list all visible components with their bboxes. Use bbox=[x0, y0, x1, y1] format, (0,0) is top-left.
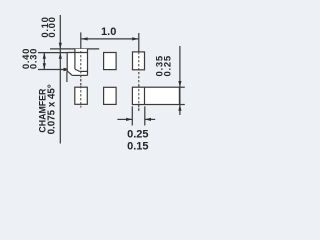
0.40/0.30 dimension double arrow (x=44.3) bbox=[43, 53, 45, 70]
inner terminal bottom edge bbox=[79, 70, 87, 72]
long pad bottom-right bbox=[132, 87, 179, 104]
dim text 0.10 (rotated, top-left) bbox=[40, 16, 58, 37]
svg-text:0.25: 0.25 bbox=[127, 129, 148, 141]
T1 bottom edge bbox=[72, 74, 87, 76]
svg-text:0.00: 0.00 bbox=[47, 16, 58, 37]
right dimension vertical (0.35/0.25) bbox=[179, 46, 181, 115]
chamfer leader arrow pointing right at chamfer bbox=[64, 68, 71, 71]
pad right-top bbox=[133, 52, 145, 70]
dim text 0.25 (bottom) bbox=[127, 129, 148, 153]
pad mid-bottom bbox=[104, 87, 117, 104]
1.0 dimension line bbox=[81, 38, 138, 40]
0.10 dim arrowhead up bbox=[59, 53, 62, 59]
pad mid-top bbox=[104, 53, 117, 70]
T1 top edge bbox=[67, 52, 87, 54]
dashed centerline left column bbox=[80, 51, 82, 108]
svg-text:1.0: 1.0 bbox=[101, 26, 116, 38]
T1 outer chamfer diagonal bbox=[67, 71, 72, 76]
T1 left edge bbox=[66, 53, 68, 71]
extension line: pad-bottom level left of T1 (y=69.5) bbox=[38, 69, 67, 71]
svg-text:0.075 x 45°: 0.075 x 45° bbox=[46, 84, 57, 134]
T1 dashed centerline over fill bbox=[80, 51, 82, 86]
terminal T1 (top-left pad with chamfered corner) fill bbox=[67, 49, 87, 76]
1.0 dim tick left (terminal centerline) bbox=[80, 32, 82, 51]
T1 right edge bbox=[87, 49, 89, 76]
dim text 0.40 (rotated, left) bbox=[21, 48, 39, 69]
bottom dim line left segment with arrow bbox=[117, 118, 132, 120]
T1 outline bbox=[67, 49, 87, 76]
dim text 0.35 (rotated, right) bbox=[155, 55, 174, 76]
chamfer leader vertical segment below arrow bbox=[66, 71, 68, 82]
0.10/0.00 dimension line + chamfer leader underline (x=60.3) bbox=[59, 15, 61, 144]
1.0 dim tick right bbox=[138, 33, 140, 52]
inner terminal left edge (rises above pad to y=48.9) bbox=[74, 49, 76, 69]
0.10 dim arrowhead down bbox=[59, 43, 62, 49]
long pad inner boundary line bbox=[144, 87, 146, 104]
bottom dim line right segment with arrow bbox=[145, 118, 155, 120]
extension line B: pad-top level left of T1 (y=52.6) bbox=[38, 52, 67, 54]
right extension line top bbox=[179, 86, 184, 88]
inner terminal chamfer diagonal bbox=[75, 69, 80, 71]
inner-terminal top edge line extended (y=48.9) bbox=[50, 48, 99, 50]
svg-text:0.30: 0.30 bbox=[29, 48, 40, 69]
pad left-bottom bbox=[75, 87, 88, 104]
bottom dim extension line right bbox=[144, 106, 146, 125]
right extension line bottom bbox=[179, 104, 184, 106]
chamfer label CHAMFER (rotated) bbox=[37, 84, 57, 134]
dashed centerline right column bbox=[138, 52, 140, 111]
bottom dim 0.25/0.15 extension line left bbox=[131, 106, 133, 125]
svg-text:0.25: 0.25 bbox=[163, 55, 174, 76]
svg-text:0.15: 0.15 bbox=[127, 141, 148, 153]
